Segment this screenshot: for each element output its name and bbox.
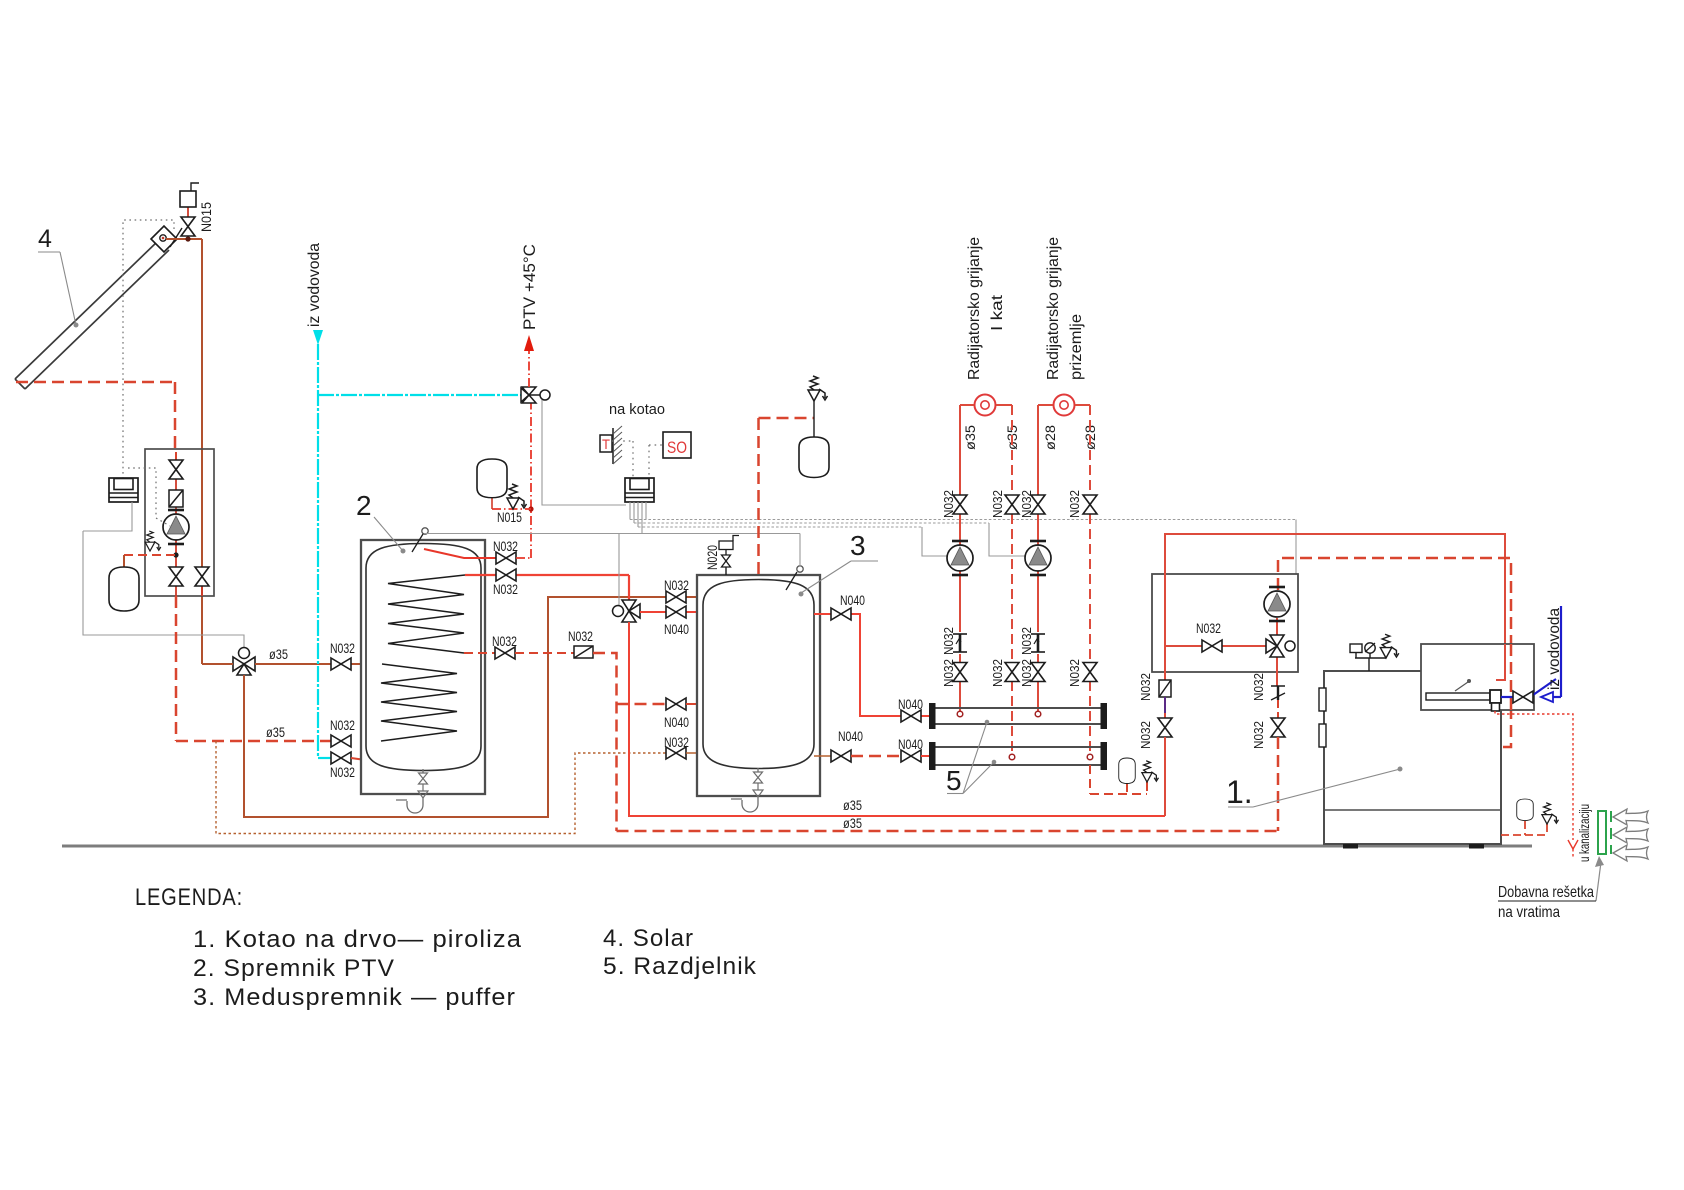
svg-text:N032: N032 [1196, 620, 1221, 636]
sensor wire tank2 to puffer [425, 533, 800, 535]
T sensor box [600, 435, 612, 452]
cold water main cyan [318, 344, 521, 758]
expansion vessel PTV [477, 459, 507, 498]
gray wire bus B [634, 522, 989, 524]
svg-text:SO: SO [667, 438, 687, 457]
tank 2 upper coil [388, 575, 465, 653]
svg-text:N020: N020 [704, 545, 720, 570]
svg-text:1. Kotao na drvo— piroliza: 1. Kotao na drvo— piroliza [193, 926, 522, 953]
mixing valve knob [540, 390, 550, 400]
valve N032 puffer top left [666, 591, 686, 603]
svg-text:N032: N032 [1067, 490, 1082, 518]
dashed corner down [593, 653, 617, 831]
pipe into puffer left4 [686, 752, 703, 754]
boiler pump [1264, 587, 1290, 621]
valve N032 boiler box [1202, 640, 1222, 652]
svg-text:Dobavna rešetka: Dobavna rešetka [1498, 884, 1594, 901]
boiler safety valve right [1542, 803, 1559, 824]
pipe into puffer left3 [686, 703, 703, 705]
svg-text:N040: N040 [840, 592, 865, 608]
blue valve [1513, 691, 1533, 703]
expansion vessel manifold [1119, 758, 1136, 784]
svg-text:na vratima: na vratima [1498, 904, 1560, 921]
svg-text:ø28: ø28 [1042, 425, 1058, 450]
dashdot riser PTV [530, 403, 532, 558]
pressure gauge [1365, 643, 1375, 653]
3-way bottom pipe long run [244, 597, 666, 817]
wall line with hatching [613, 426, 622, 464]
riser4 return dashed [1089, 405, 1091, 753]
valve N032 below box left [1164, 713, 1166, 718]
svg-text:T: T [602, 436, 610, 452]
pump circuit 1 [947, 541, 973, 575]
main controller [625, 478, 654, 502]
boiler hinges [1319, 688, 1326, 711]
riser2 return dashed [1011, 405, 1013, 753]
svg-text:3. Meduspremnik — puffer: 3. Meduspremnik — puffer [193, 984, 516, 1011]
solar return pipe dashed [16, 382, 175, 452]
svg-text:N032: N032 [493, 538, 518, 554]
dashed branch to vessel [124, 554, 176, 556]
svg-text:N040: N040 [664, 621, 689, 637]
leaders for 5 [947, 720, 996, 794]
fine return line to puffer [216, 741, 666, 834]
junction node station [173, 552, 178, 557]
svg-text:ø35: ø35 [843, 815, 862, 831]
coil return dashed out right [464, 652, 495, 654]
3-way actuator circle [239, 648, 250, 659]
svg-text:N032: N032 [1019, 659, 1034, 687]
gauge circuit 2 [1054, 395, 1075, 416]
red down to long line [1164, 737, 1166, 816]
boiler instruments group [1350, 644, 1386, 671]
valve N032 tank2 hot out [496, 552, 516, 564]
svg-text:ø35: ø35 [843, 797, 862, 813]
svg-text:N032: N032 [664, 577, 689, 593]
tank2 drain valve [422, 769, 424, 773]
valve N032 riser1 bottom [953, 663, 967, 682]
dashed branch to safety group [759, 417, 815, 420]
puffer outer casing [697, 575, 820, 796]
svg-text:N015: N015 [198, 202, 214, 232]
ground line [62, 845, 1532, 848]
leader for 1 [1228, 767, 1403, 808]
svg-text:N032: N032 [990, 659, 1005, 687]
valve N040 manifold bottom inlet [901, 750, 921, 762]
svg-text:2: 2 [356, 490, 372, 521]
svg-text:N032: N032 [568, 628, 593, 644]
boiler expansion vessel [1517, 799, 1534, 821]
pipe into puffer top left [686, 596, 703, 598]
PTV outlet dashdot [528, 350, 530, 387]
gauge1 pipes [960, 404, 974, 406]
svg-text:LEGENDA:: LEGENDA: [135, 884, 243, 911]
filter below box left [1159, 680, 1171, 697]
valve N040 puffer right [831, 608, 851, 620]
gauge2 pipes [1038, 404, 1053, 406]
svg-text:N032: N032 [941, 490, 956, 518]
valve N040 puffer left2 [666, 606, 686, 618]
valve N032 tank2 supply [496, 569, 516, 581]
controller wire gray [83, 502, 244, 647]
cold water blue [1501, 606, 1561, 697]
svg-text:N032: N032 [1138, 673, 1153, 701]
grille leader arrow [1596, 862, 1601, 901]
supply pipe over housing [1496, 644, 1505, 680]
valve N015 solar [181, 217, 195, 236]
3-way2 actuator circle [613, 606, 624, 617]
blue arrow head [1541, 692, 1553, 702]
dashdot to PTV riser [516, 557, 531, 559]
air flow arrows [1613, 809, 1648, 861]
expansion vessel solar [109, 567, 139, 611]
valve N032 riser1 top [953, 495, 967, 514]
leader for 4 [38, 252, 79, 328]
expansion vessel main [799, 437, 829, 477]
svg-text:5: 5 [946, 765, 962, 796]
tube fitting [1490, 690, 1501, 703]
exchanger tube [1426, 693, 1490, 700]
valve V2 station bottom left [169, 567, 183, 586]
riser1 supply solid [959, 405, 961, 712]
valve N032 below box right [1271, 718, 1285, 737]
3-way valve left [233, 657, 255, 675]
check valve below box right [1271, 686, 1285, 700]
boiler return dashed top [1278, 558, 1511, 747]
controller wire stubs [619, 502, 646, 606]
manifold return bar [934, 747, 1102, 765]
svg-text:iz vodovoda: iz vodovoda [306, 243, 323, 327]
solar return dashed into tank2 [176, 740, 331, 743]
dashed to filter [515, 652, 574, 654]
PTV arrow [524, 335, 534, 351]
svg-text:u kanalizaciju: u kanalizaciju [1576, 804, 1592, 862]
valve N032 riser3 top [1031, 495, 1045, 514]
boiler safety valve [1380, 634, 1399, 658]
pump circuit 2 [1025, 541, 1051, 575]
valve N032 tank2 lower left [331, 735, 351, 747]
valve N032 puffer left4 [666, 747, 686, 759]
valve V1 station top [169, 460, 183, 479]
junction node at N015 [185, 236, 190, 241]
junction node N015 branch [528, 506, 533, 511]
safety valve main [808, 376, 828, 401]
svg-text:4. Solar: 4. Solar [603, 925, 694, 952]
puffer vessel [703, 580, 814, 769]
boiler circuit box [1152, 574, 1298, 672]
vessel stem dashed [1501, 821, 1547, 835]
valve N032 riser4 bottom [1083, 663, 1097, 682]
boiler right edge below housing [1500, 710, 1502, 844]
svg-text:N032: N032 [1019, 490, 1034, 518]
gray wire bus A [630, 519, 1296, 521]
exchanger sensor [1455, 682, 1468, 691]
collector head box [151, 226, 177, 252]
solar pump station box [145, 449, 214, 596]
puffer drain [757, 768, 759, 772]
svg-text:I kat: I kat [989, 294, 1006, 331]
pump1 wire branch [922, 527, 947, 556]
check valve circuit1 [953, 634, 967, 652]
valve N040 puffer left3 [666, 698, 686, 710]
solar controller [109, 478, 138, 502]
vessel stem [491, 497, 493, 509]
auto air vent square N015 [180, 191, 196, 207]
svg-text:N015: N015 [497, 509, 522, 525]
svg-text:N032: N032 [1019, 627, 1034, 655]
svg-text:5. Razdjelnik: 5. Razdjelnik [603, 953, 757, 980]
manifold connection nodes [957, 711, 963, 717]
pipe to safety valve N015 [187, 207, 189, 217]
dashed pipe in station [175, 452, 177, 461]
3-way valve puffer [622, 600, 640, 622]
valve V3 station bottom right [195, 567, 209, 586]
air vent N020 [725, 567, 727, 575]
valve N032 riser2 bottom [1005, 663, 1019, 682]
dashed inlet curve to tank bottom [351, 758, 421, 769]
gauge circuit 1 [975, 395, 996, 416]
controller sensor dotted wire [128, 468, 170, 526]
manifold supply bar [934, 708, 1102, 724]
valve N032 tank2 bottom cyan [331, 752, 351, 764]
solar return dashed down to tank [175, 596, 178, 741]
long dashed return line [617, 830, 1279, 833]
leader for 3 [799, 561, 879, 597]
svg-text:N032: N032 [1067, 659, 1082, 687]
puffer sensor [797, 566, 803, 572]
solar pump P1 [163, 510, 189, 544]
valve N040 puffer right bottom [831, 750, 851, 762]
dashed into puffer left3 [617, 703, 667, 706]
filter N032 [574, 646, 593, 658]
DHW exchanger housing [1421, 644, 1534, 710]
boiler lower band [1324, 809, 1501, 811]
svg-text:N040: N040 [898, 736, 923, 752]
safety valve N015 [507, 484, 527, 509]
tank2 drain pipe [396, 798, 423, 813]
svg-text:N032: N032 [941, 627, 956, 655]
tank 2 lower coil [381, 664, 457, 741]
svg-text:N032: N032 [492, 633, 517, 649]
pipe 3way to tank2 coil [202, 663, 382, 665]
valve N032 coil return [495, 647, 515, 659]
svg-text:N032: N032 [941, 659, 956, 687]
air vent stem [191, 183, 199, 191]
purple segment [1164, 697, 1166, 713]
boiler 3-way mixing valve [1266, 635, 1284, 657]
tank 2 outer casing [361, 540, 485, 794]
solar collector 4 [15, 240, 169, 389]
svg-text:prizemlje: prizemlje [1068, 314, 1085, 380]
svg-text:N032: N032 [493, 581, 518, 597]
svg-text:Radijatorsko grijanje: Radijatorsko grijanje [966, 237, 983, 380]
valve N032 riser2 top [1005, 495, 1019, 514]
collector sensor circle [160, 235, 166, 241]
svg-text:ø35: ø35 [962, 425, 978, 450]
svg-text:N032: N032 [330, 764, 355, 780]
drain line to sewer [1495, 711, 1573, 840]
tank 2 vessel [366, 544, 481, 771]
sewer arrow [1568, 840, 1578, 849]
sensor wire dotted from collector [123, 220, 174, 478]
valve N032 tank2 upper left [331, 658, 351, 670]
riser3 supply solid [1037, 405, 1039, 712]
SO box [663, 432, 691, 458]
svg-text:N040: N040 [898, 696, 923, 712]
supply header red [1165, 534, 1505, 686]
pipe to manifold bottom [921, 755, 930, 757]
leader for 2 [374, 517, 406, 554]
safety valve stem top [813, 401, 815, 418]
svg-text:N032: N032 [1138, 721, 1153, 749]
tank 2 sensor [422, 528, 428, 534]
svg-text:Radijatorsko grijanje: Radijatorsko grijanje [1045, 237, 1062, 380]
puffer right top port [814, 614, 930, 716]
puffer right bottom port [814, 755, 831, 757]
grille dashed green [1610, 811, 1612, 854]
cyan arrow head [313, 330, 323, 345]
svg-text:N032: N032 [1251, 721, 1266, 749]
safety valve manifold [1142, 761, 1159, 782]
boiler feet [1343, 844, 1358, 849]
3-way knob [1285, 641, 1295, 651]
svg-text:4: 4 [38, 225, 52, 253]
collector sensor slash [170, 228, 182, 247]
thermostatic mixing valve [521, 387, 540, 403]
puffer drain pipe [731, 797, 758, 812]
solar supply pipe solid [166, 239, 202, 664]
dashed below manifold to fill group [1090, 765, 1147, 794]
valve N032 riser4 top [1083, 495, 1097, 514]
svg-text:ø35: ø35 [266, 724, 285, 740]
branch to vessel dashdot [492, 508, 531, 510]
svg-text:N032: N032 [1251, 673, 1266, 701]
mixing valve wire [542, 400, 626, 505]
solar hot supply to 3way2 [465, 575, 629, 601]
valve N032 riser3 bottom [1031, 663, 1045, 682]
wire to solar controller [83, 530, 132, 532]
station pipe solid segments [176, 478, 202, 596]
svg-text:N032: N032 [990, 490, 1005, 518]
svg-text:N032: N032 [664, 734, 689, 750]
check valve station [169, 490, 183, 507]
dashed down to long line [1277, 737, 1280, 831]
pump2 wire branch [989, 523, 1025, 556]
vessel stem [813, 418, 815, 437]
svg-text:PTV +45°C: PTV +45°C [521, 244, 539, 330]
svg-text:N040: N040 [838, 728, 863, 744]
return pipe over housing [1510, 644, 1513, 712]
vessel stem [123, 555, 125, 567]
svg-text:N032: N032 [330, 717, 355, 733]
dotted wires T and SO [612, 441, 663, 478]
3way2 bottom long run [629, 622, 1165, 816]
supply grille green [1598, 811, 1606, 854]
boiler body [1324, 671, 1501, 844]
pipe 3way2 right to puffer [640, 611, 703, 613]
dashed drop into puffer top [757, 418, 760, 580]
valve N040 manifold top inlet [901, 710, 921, 722]
svg-text:2. Spremnik PTV: 2. Spremnik PTV [193, 955, 395, 982]
svg-text:na kotao: na kotao [609, 401, 665, 418]
svg-text:1.: 1. [1226, 774, 1253, 810]
svg-text:N040: N040 [664, 714, 689, 730]
svg-text:N032: N032 [330, 640, 355, 656]
puffer sensor wire [799, 534, 801, 567]
safety valve station [145, 531, 161, 551]
svg-text:3: 3 [850, 530, 866, 561]
svg-text:iz vodovoda: iz vodovoda [1546, 608, 1563, 690]
dashed between valves [851, 755, 901, 758]
hot out red diagonal in tank [424, 549, 496, 558]
svg-text:ø35: ø35 [269, 646, 288, 662]
check valve circuit2 [1031, 634, 1045, 652]
dashed to valve [1277, 700, 1279, 718]
